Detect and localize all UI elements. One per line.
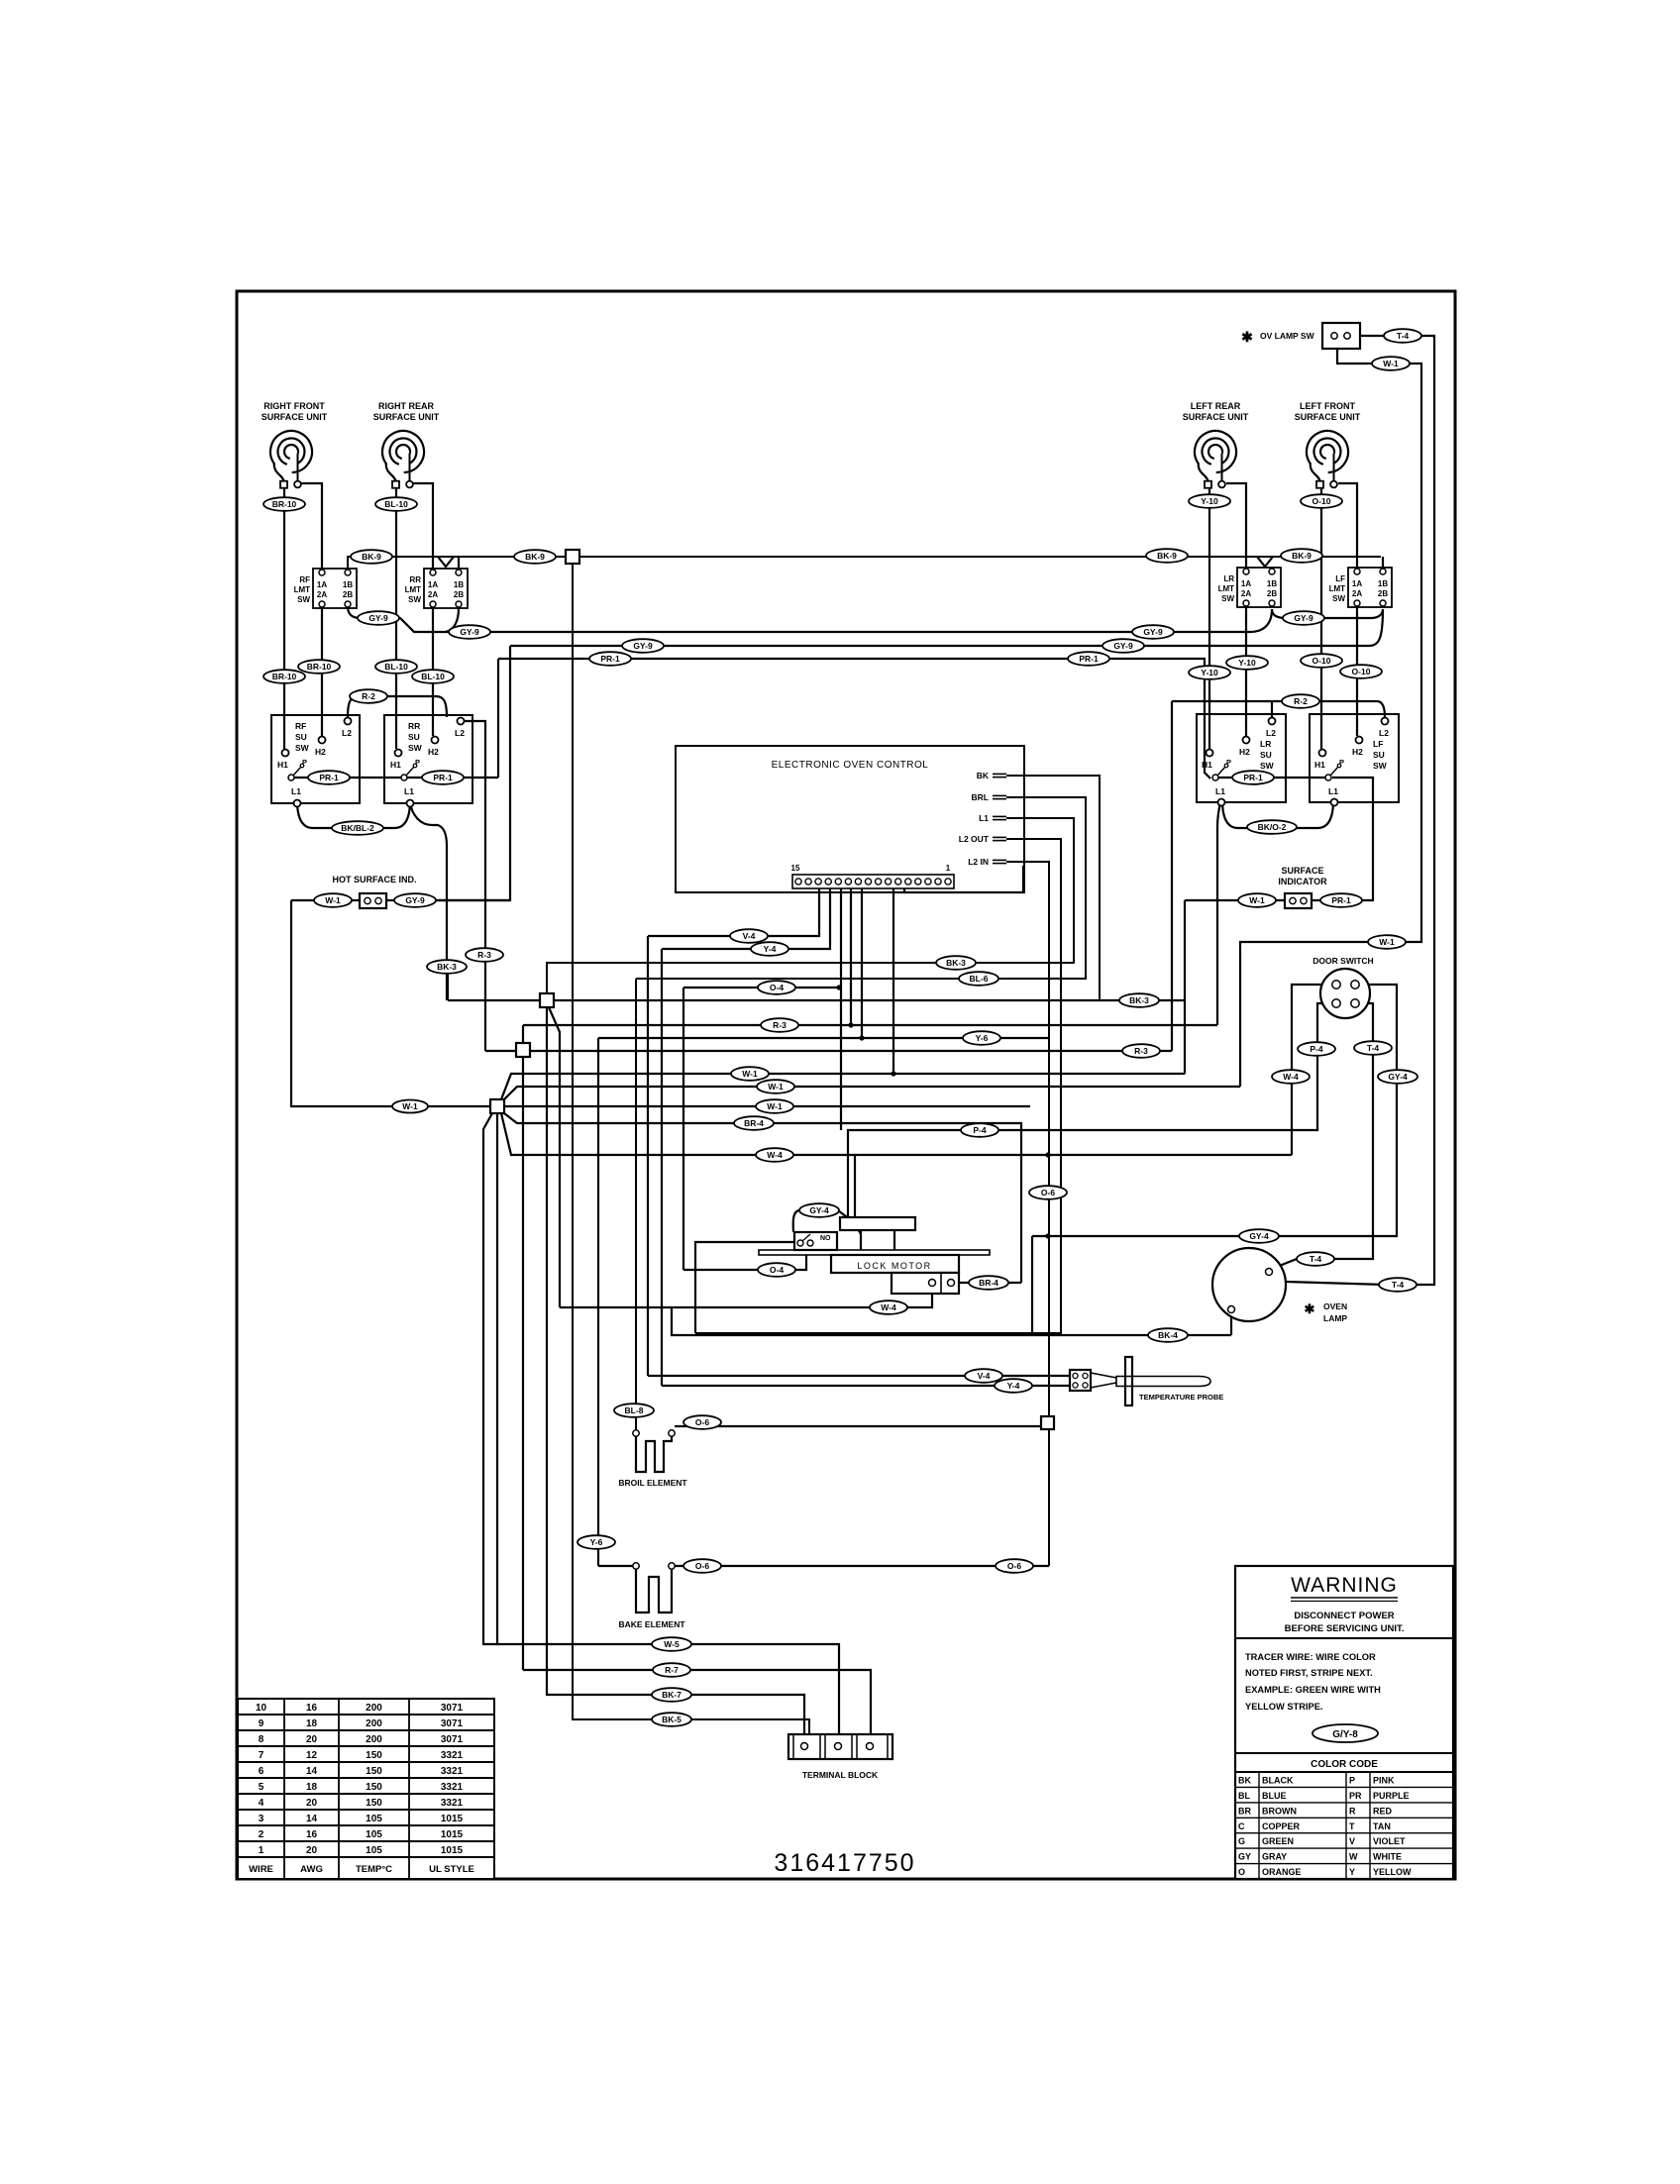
svg-text:DISCONNECT POWER: DISCONNECT POWER <box>1294 1611 1394 1621</box>
svg-text:5: 5 <box>259 1782 264 1793</box>
svg-text:H2: H2 <box>315 747 326 757</box>
svg-text:BK-4: BK-4 <box>1158 1330 1178 1340</box>
svg-text:BK-3: BK-3 <box>1129 995 1149 1005</box>
wire label BR-4 <box>969 1276 1008 1290</box>
svg-text:R-3: R-3 <box>773 1020 787 1030</box>
wire label Y-10 <box>1189 494 1230 508</box>
svg-text:GY-9: GY-9 <box>460 627 479 637</box>
svg-text:3321: 3321 <box>441 1782 464 1793</box>
svg-text:O-10: O-10 <box>1312 656 1331 666</box>
svg-text:1015: 1015 <box>441 1845 464 1856</box>
wire label W-4 <box>870 1300 907 1314</box>
surface unit coil right rear <box>382 431 424 488</box>
svg-text:V-4: V-4 <box>978 1371 991 1381</box>
svg-text:LF: LF <box>1373 739 1383 749</box>
svg-text:LMT: LMT <box>1329 584 1346 593</box>
svg-text:R-3: R-3 <box>477 950 491 960</box>
wire LR LMT 2A down to LR H2 <box>1245 607 1247 736</box>
svg-text:BR-10: BR-10 <box>307 662 332 672</box>
svg-text:BK-7: BK-7 <box>662 1690 682 1700</box>
svg-text:H1: H1 <box>277 760 288 770</box>
wire BK from oven control <box>1006 776 1100 1000</box>
svg-text:3071: 3071 <box>441 1734 464 1745</box>
wire label BK-3 <box>1119 993 1159 1007</box>
limit switch LF LMT SW <box>1329 568 1392 607</box>
svg-text:BLACK: BLACK <box>1262 1776 1294 1786</box>
wire label W-1 <box>1372 357 1410 370</box>
svg-text:Y-6: Y-6 <box>976 1033 989 1043</box>
junction node on BK bus <box>540 993 554 1007</box>
wire label BK/O-2 <box>1247 820 1297 834</box>
svg-text:Y-4: Y-4 <box>1007 1381 1020 1391</box>
svg-text:1015: 1015 <box>441 1829 464 1840</box>
wire BK-9 bus across top <box>348 557 1381 572</box>
wire label BK-9 <box>514 550 556 564</box>
svg-text:20: 20 <box>306 1845 318 1856</box>
wire label O-4 <box>758 1263 795 1277</box>
svg-text:150: 150 <box>366 1766 382 1777</box>
svg-text:W-4: W-4 <box>767 1150 783 1160</box>
svg-text:L1: L1 <box>1328 786 1338 796</box>
svg-text:LAMP: LAMP <box>1323 1313 1347 1323</box>
wire BK-7 run to terminal block <box>547 1007 804 1742</box>
svg-text:1A: 1A <box>1241 579 1251 588</box>
svg-text:H2: H2 <box>1239 747 1250 757</box>
wire label R-3 <box>1122 1044 1160 1058</box>
wire L2 IN from oven control to oven elements <box>1006 862 1049 1566</box>
svg-text:BL: BL <box>1238 1791 1250 1801</box>
svg-text:BEFORE SERVICING UNIT.: BEFORE SERVICING UNIT. <box>1285 1623 1405 1634</box>
wire PR-1 inside left surface switches <box>291 777 498 779</box>
wire diagonal from BK node to W-4 drop <box>549 1007 560 1307</box>
svg-text:2A: 2A <box>428 590 438 599</box>
svg-text:P: P <box>302 758 307 767</box>
svg-text:20: 20 <box>306 1798 318 1809</box>
svg-text:YELLOW: YELLOW <box>1373 1867 1412 1877</box>
svg-text:1B: 1B <box>1378 579 1388 588</box>
svg-text:SU: SU <box>295 732 307 742</box>
svg-text:1: 1 <box>946 864 951 873</box>
svg-text:G: G <box>1238 1836 1245 1846</box>
svg-text:RR: RR <box>409 575 421 584</box>
wire label BL-10 <box>412 670 454 683</box>
svg-text:W-1: W-1 <box>767 1101 783 1111</box>
wire label R-3 <box>466 948 503 962</box>
temperature probe <box>1070 1357 1210 1405</box>
svg-text:WIRE: WIRE <box>249 1864 273 1875</box>
svg-text:16: 16 <box>306 1703 318 1714</box>
wire label BK-9 <box>351 550 392 564</box>
svg-text:DOOR SWITCH: DOOR SWITCH <box>1312 956 1373 966</box>
svg-text:O-10: O-10 <box>1312 496 1331 506</box>
wire label V-4 <box>730 929 768 943</box>
svg-text:SU: SU <box>1373 750 1385 760</box>
svg-text:T-4: T-4 <box>1397 331 1410 341</box>
svg-text:1A: 1A <box>1352 579 1362 588</box>
wire label GY-9 <box>1132 625 1174 639</box>
svg-text:GRAY: GRAY <box>1262 1852 1287 1862</box>
svg-text:2A: 2A <box>317 590 327 599</box>
wire strip terminal drop V-4 <box>648 888 819 1376</box>
svg-text:R-7: R-7 <box>665 1665 679 1675</box>
svg-text:BR: BR <box>1238 1806 1251 1816</box>
wire LF LMT 2A down to LF H2 <box>1356 607 1358 736</box>
wire RR LMT 2B drop to GY-9 bus <box>446 608 459 632</box>
surface switch LF SU SW <box>1310 714 1399 806</box>
wire label Y-4 <box>995 1379 1032 1393</box>
svg-text:TRACER WIRE: WIRE COLOR: TRACER WIRE: WIRE COLOR <box>1245 1652 1376 1662</box>
door switch <box>1320 969 1370 1018</box>
svg-text:SW: SW <box>295 743 310 753</box>
wire O-6 bus to bake element <box>675 1565 1049 1567</box>
wire label GY-9 <box>449 625 490 639</box>
svg-text:LR: LR <box>1223 574 1234 583</box>
wire W-5 drop from X node <box>497 1113 839 1742</box>
svg-text:UL STYLE: UL STYLE <box>429 1864 474 1875</box>
svg-text:PINK: PINK <box>1373 1776 1395 1786</box>
svg-text:BK-9: BK-9 <box>525 552 545 562</box>
svg-text:GY-9: GY-9 <box>1294 613 1313 623</box>
wire label GY-9 <box>1283 611 1324 625</box>
wire label O-4 <box>758 981 795 994</box>
svg-text:L1: L1 <box>1215 786 1225 796</box>
wire label T-4 <box>1297 1252 1334 1266</box>
svg-text:W-5: W-5 <box>664 1639 680 1649</box>
wire label Y-10 <box>1226 656 1268 670</box>
svg-text:SURFACE UNIT: SURFACE UNIT <box>1183 412 1249 422</box>
svg-text:R: R <box>1349 1806 1356 1816</box>
svg-text:1B: 1B <box>343 580 353 589</box>
wire strip terminal drop Y-4 <box>662 888 830 1386</box>
bake element <box>633 1563 675 1612</box>
wire label O-6 <box>996 1559 1033 1573</box>
svg-text:7: 7 <box>259 1750 264 1761</box>
wire strip terminal drop to W-1 bus <box>892 888 894 1074</box>
wire GY-9 vertical to hot surface indicator <box>435 646 510 900</box>
wire label W-1 <box>731 1067 769 1081</box>
svg-text:BLUE: BLUE <box>1262 1791 1287 1801</box>
wire label BL-6 <box>959 972 998 986</box>
svg-text:L2: L2 <box>1266 728 1276 738</box>
svg-text:8: 8 <box>259 1734 264 1745</box>
wire label GY-9 <box>1102 639 1144 653</box>
svg-text:P: P <box>1349 1776 1355 1786</box>
svg-text:PR-1: PR-1 <box>600 654 620 664</box>
svg-text:W-1: W-1 <box>768 1082 784 1092</box>
svg-text:BAKE ELEMENT: BAKE ELEMENT <box>618 1619 685 1629</box>
wire W-1 bus a <box>504 1087 1240 1099</box>
wire LF coil left lead to LF H1 <box>1320 486 1322 749</box>
surface switch LR SU SW <box>1197 714 1286 806</box>
svg-text:V: V <box>1349 1836 1355 1846</box>
surface switch RF SU SW <box>271 715 360 807</box>
junction dots <box>1045 1152 1050 1157</box>
wire label W-1 <box>1238 893 1276 907</box>
svg-text:3321: 3321 <box>441 1750 464 1761</box>
svg-text:L1: L1 <box>404 786 414 796</box>
svg-text:L2 OUT: L2 OUT <box>959 834 990 844</box>
wire GY-4 into lock switch <box>855 1155 861 1234</box>
wire label PR-1 <box>1068 652 1109 666</box>
wire P-4 from door switch <box>848 1003 1332 1217</box>
svg-text:12: 12 <box>306 1750 318 1761</box>
svg-text:NOTED FIRST, STRIPE NEXT.: NOTED FIRST, STRIPE NEXT. <box>1245 1668 1373 1678</box>
svg-text:P-4: P-4 <box>973 1125 987 1135</box>
wire label T-4 <box>1384 329 1421 343</box>
wire label BK-9 <box>1281 549 1322 563</box>
svg-text:T-4: T-4 <box>1392 1280 1405 1290</box>
wire label GY-4 <box>1378 1070 1417 1084</box>
svg-text:GY-4: GY-4 <box>809 1205 829 1215</box>
wire label R-2 <box>350 689 387 703</box>
svg-text:1: 1 <box>259 1845 264 1856</box>
svg-text:W: W <box>1349 1852 1358 1862</box>
svg-text:BK/O-2: BK/O-2 <box>1258 822 1287 832</box>
svg-text:1015: 1015 <box>441 1814 464 1824</box>
svg-text:2B: 2B <box>454 590 464 599</box>
svg-text:LMT: LMT <box>294 585 311 594</box>
wire label BR-10 <box>263 497 305 511</box>
svg-text:Y-4: Y-4 <box>764 944 777 954</box>
wire R-3 vertical from RR L2 <box>460 721 485 1051</box>
svg-text:ORANGE: ORANGE <box>1262 1867 1302 1877</box>
wire LR coil left lead to LR H1 <box>1208 486 1210 749</box>
svg-text:W-1: W-1 <box>402 1101 418 1111</box>
svg-text:W-1: W-1 <box>1379 937 1395 947</box>
svg-text:O-6: O-6 <box>695 1417 709 1427</box>
svg-text:PR-1: PR-1 <box>433 773 453 782</box>
svg-text:105: 105 <box>366 1829 382 1840</box>
wire GY-4 from door switch down right side <box>1032 985 1397 1333</box>
svg-text:BR-4: BR-4 <box>744 1118 764 1128</box>
svg-text:O-6: O-6 <box>695 1561 709 1571</box>
svg-text:6: 6 <box>259 1766 264 1777</box>
wire GY-9 from RF LMT 2B across to LR LMT 2B <box>348 606 1272 632</box>
svg-text:16: 16 <box>306 1829 318 1840</box>
svg-text:PR: PR <box>1349 1791 1362 1801</box>
svg-text:BK-9: BK-9 <box>1157 551 1177 561</box>
wire R-7 run to terminal block <box>523 1670 871 1742</box>
svg-text:RF: RF <box>299 575 310 584</box>
svg-text:V-4: V-4 <box>743 931 756 941</box>
svg-text:HOT SURFACE IND.: HOT SURFACE IND. <box>332 875 416 884</box>
svg-text:COPPER: COPPER <box>1262 1821 1301 1831</box>
svg-text:H1: H1 <box>1314 760 1325 770</box>
junction node at O-6 <box>1041 1416 1054 1429</box>
wire label GY-9 <box>622 639 664 653</box>
wire label W-5 <box>652 1637 691 1651</box>
svg-text:YELLOW STRIPE.: YELLOW STRIPE. <box>1245 1702 1323 1712</box>
wire R-2 linking RF L2 and RR L2 <box>348 696 447 717</box>
wire strip terminal drop to R-3 bus <box>850 888 852 1025</box>
wire label P-4 <box>961 1123 998 1137</box>
svg-text:ELECTRONIC OVEN CONTROL: ELECTRONIC OVEN CONTROL <box>772 760 929 771</box>
svg-text:H1: H1 <box>390 760 401 770</box>
svg-text:BK/BL-2: BK/BL-2 <box>341 823 374 833</box>
svg-text:SW: SW <box>297 595 310 604</box>
wire label W-1 <box>392 1100 428 1113</box>
svg-text:SURFACE UNIT: SURFACE UNIT <box>1295 412 1361 422</box>
wire PR-1 down from bus to surface switch row <box>497 659 499 778</box>
wire strip terminal link to L2 IN <box>904 866 1023 892</box>
svg-text:W-1: W-1 <box>1249 895 1265 905</box>
wire X node lower-left branch <box>483 1113 497 1644</box>
svg-text:WHITE: WHITE <box>1373 1852 1402 1862</box>
wire BK-3 vertical link <box>447 966 449 1000</box>
wire T-4 from door switch to oven lamp <box>1272 1003 1373 1269</box>
wire label PR-1 <box>1232 771 1274 784</box>
wire BR-4 from lock motor <box>954 1282 1021 1284</box>
wire RF coil left lead to H1 <box>283 486 285 749</box>
svg-text:SURFACE UNIT: SURFACE UNIT <box>373 412 440 422</box>
svg-text:150: 150 <box>366 1750 382 1761</box>
svg-text:2A: 2A <box>1352 589 1362 598</box>
svg-text:R-2: R-2 <box>362 691 375 701</box>
svg-text:2B: 2B <box>1267 589 1277 598</box>
svg-text:GY-9: GY-9 <box>1143 627 1163 637</box>
oven lamp <box>1212 1248 1286 1321</box>
wire label BK-3 <box>427 960 467 974</box>
svg-text:LEFT REAR: LEFT REAR <box>1191 401 1241 411</box>
svg-text:1A: 1A <box>428 580 438 589</box>
svg-text:RR: RR <box>408 721 420 731</box>
wire label O-10 <box>1340 665 1382 678</box>
broil element <box>633 1430 675 1472</box>
wire label BK-4 <box>1148 1328 1188 1342</box>
svg-text:W-1: W-1 <box>1383 359 1399 368</box>
surface indicator <box>1285 893 1312 908</box>
wire oven lamp to T-4 <box>1272 1275 1385 1285</box>
surface switch RR SU SW <box>384 715 472 807</box>
svg-text:15: 15 <box>791 864 800 873</box>
svg-text:18: 18 <box>306 1718 318 1729</box>
svg-text:BK-3: BK-3 <box>946 958 966 968</box>
wire RR coil left lead to RR H1 <box>395 486 397 749</box>
wire L1 from oven control to junction node riser <box>547 818 1074 993</box>
wire BK-4 from W-4 bus to oven lamp <box>672 1308 1231 1335</box>
wire surface indicator left lead W-1 <box>1185 900 1285 1074</box>
svg-text:RED: RED <box>1373 1806 1393 1816</box>
svg-text:SW: SW <box>1221 594 1234 603</box>
svg-text:RIGHT REAR: RIGHT REAR <box>378 401 435 411</box>
svg-text:L2: L2 <box>342 728 352 738</box>
svg-text:PR-1: PR-1 <box>319 773 339 782</box>
wire label R-7 <box>653 1663 690 1677</box>
svg-text:GY-9: GY-9 <box>405 895 425 905</box>
svg-text:PR-1: PR-1 <box>1331 895 1351 905</box>
wire label V-4 <box>965 1369 1002 1383</box>
svg-text:SW: SW <box>408 743 423 753</box>
wire node2 riser <box>522 1025 524 1670</box>
svg-text:LMT: LMT <box>405 585 422 594</box>
svg-text:BRL: BRL <box>972 792 989 802</box>
wire label BR-10 <box>263 670 305 683</box>
wire label O-6 <box>1029 1186 1067 1199</box>
svg-text:BL-10: BL-10 <box>384 499 408 509</box>
wire label BL-10 <box>375 660 417 674</box>
wire Y-4 to probe connector <box>662 1385 1070 1387</box>
svg-text:W-4: W-4 <box>1283 1072 1299 1082</box>
svg-text:SU: SU <box>408 732 420 742</box>
svg-text:L2: L2 <box>1379 728 1389 738</box>
wire RR L1 drop to node bus via BK-3 <box>410 802 447 1000</box>
svg-text:OV LAMP SW: OV LAMP SW <box>1260 331 1315 341</box>
svg-text:150: 150 <box>366 1782 382 1793</box>
svg-text:1A: 1A <box>317 580 327 589</box>
wire LR L1 drop to R-3 bus <box>1217 802 1220 1025</box>
wire BK/BL-2 linking RF L1 and RR L1 <box>297 800 410 828</box>
wire label W-4 <box>756 1148 793 1162</box>
svg-text:P: P <box>415 758 420 767</box>
wire label GY-4 <box>1239 1229 1279 1243</box>
svg-text:2B: 2B <box>343 590 353 599</box>
wire V-4 to probe connector <box>648 1375 1070 1377</box>
wire BR-4 bus from X node <box>504 1113 1021 1283</box>
limit switch RF LMT SW <box>294 569 357 608</box>
wire lock switch to L2 OUT vertical <box>695 1242 794 1333</box>
wire PR-1 bus mid <box>498 659 1210 779</box>
limit switch LR LMT SW <box>1218 568 1281 607</box>
svg-text:BR-4: BR-4 <box>979 1278 998 1288</box>
svg-text:C: C <box>1238 1821 1245 1831</box>
svg-text:TAN: TAN <box>1373 1821 1391 1831</box>
wire W-4 bus from X node <box>501 1113 1292 1155</box>
wire label O-6 <box>683 1559 721 1573</box>
svg-text:316417750: 316417750 <box>774 1849 915 1877</box>
wire strip terminal drop to Y-6 bus <box>861 888 863 1038</box>
svg-text:BL-10: BL-10 <box>384 662 408 672</box>
svg-text:TEMP°C: TEMP°C <box>356 1864 392 1875</box>
svg-text:BROIL ELEMENT: BROIL ELEMENT <box>618 1478 687 1488</box>
wire W-1 from oven lamp switch down right side <box>1240 340 1421 1087</box>
svg-text:GY-9: GY-9 <box>368 613 388 623</box>
svg-text:H1: H1 <box>1202 760 1212 770</box>
wire label PR-1 <box>1320 893 1362 907</box>
svg-text:LR: LR <box>1260 739 1271 749</box>
svg-text:105: 105 <box>366 1845 382 1856</box>
svg-text:GY-4: GY-4 <box>1388 1072 1408 1082</box>
wire label Y-10 <box>1189 666 1230 679</box>
svg-text:SURFACE UNIT: SURFACE UNIT <box>262 412 328 422</box>
svg-text:BK: BK <box>1238 1776 1251 1786</box>
svg-text:SU: SU <box>1260 750 1272 760</box>
wire label BK-5 <box>652 1713 691 1726</box>
svg-text:BROWN: BROWN <box>1262 1806 1297 1816</box>
svg-text:GY-9: GY-9 <box>1113 641 1133 651</box>
wire hot surface indicator leads <box>291 899 510 901</box>
svg-text:BL-10: BL-10 <box>421 672 445 681</box>
wire label BL-8 <box>614 1404 654 1417</box>
svg-text:14: 14 <box>306 1814 318 1824</box>
svg-text:O-6: O-6 <box>1041 1188 1055 1197</box>
wire T-4 from oven lamp switch down right side <box>1350 336 1434 1285</box>
svg-text:PR-1: PR-1 <box>1243 773 1263 782</box>
svg-text:GY-9: GY-9 <box>633 641 653 651</box>
svg-text:T-4: T-4 <box>1367 1043 1380 1053</box>
wire BK bus through junction <box>448 999 1185 1001</box>
wire R-3 bus lower <box>485 1050 1172 1052</box>
svg-text:PURPLE: PURPLE <box>1373 1791 1410 1801</box>
svg-text:20: 20 <box>306 1734 318 1745</box>
svg-text:R-3: R-3 <box>1134 1046 1148 1056</box>
svg-text:NO: NO <box>820 1235 831 1242</box>
lock switch <box>794 1232 837 1250</box>
svg-text:4: 4 <box>259 1798 264 1809</box>
wire gauge table <box>238 1699 494 1879</box>
svg-text:Y-10: Y-10 <box>1201 496 1218 506</box>
wire LF coil right lead to LF LMT 1A <box>1338 483 1357 568</box>
wire label O-10 <box>1301 494 1342 508</box>
